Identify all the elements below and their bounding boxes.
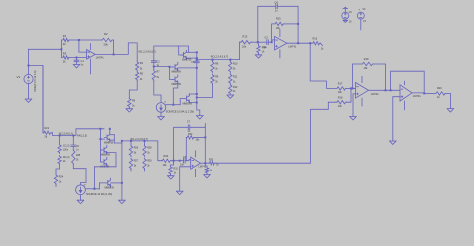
wire U2 plus to ground <box>180 167 191 191</box>
wire R30 to node <box>171 160 173 162</box>
svg-text:R(1,2,3,4,5,6,7): R(1,2,3,4,5,6,7) <box>211 55 229 58</box>
node stage4 inverting <box>352 87 354 89</box>
resistor R24 <box>54 174 64 185</box>
resistor R33 <box>209 160 220 167</box>
voltage source V1 (signal input) <box>17 49 37 99</box>
wire Q3 emitter down <box>173 84 178 105</box>
svg-text:MMBT39: MMBT39 <box>172 84 182 86</box>
node U4 output <box>385 89 387 91</box>
transistor Q3 <box>172 75 182 86</box>
U3 power stubs <box>279 29 281 58</box>
node colA tap <box>59 135 61 137</box>
ground under U5 <box>390 141 397 144</box>
wire rail2 to RS <box>158 141 162 161</box>
wire Q4 base riser <box>180 99 184 105</box>
wire Q4 collector <box>189 93 198 96</box>
svg-text:R26: R26 <box>134 147 139 150</box>
node IN junction <box>28 65 30 67</box>
node stage1 input split <box>60 40 62 58</box>
wire U4 plus to ground <box>353 94 356 117</box>
resistor R21 <box>43 66 52 139</box>
node U3 output <box>297 42 299 44</box>
wire IN to stage1 <box>29 48 62 50</box>
net label N001 <box>139 51 157 54</box>
wire U5 plus to ground <box>393 97 400 141</box>
svg-text:MMBT39: MMBT39 <box>101 154 111 156</box>
wire Q8 base riser <box>99 183 105 189</box>
voltage source V2 <box>342 7 353 23</box>
node series junction <box>179 160 181 162</box>
ground under C1 <box>73 65 80 68</box>
ground right block2 <box>197 116 204 119</box>
node U2 output <box>204 162 206 164</box>
svg-text:MMBT39: MMBT39 <box>172 71 182 73</box>
wire U3 output <box>287 42 310 44</box>
wire S1 bottom left <box>196 84 213 98</box>
resistor R29 <box>143 158 152 170</box>
resistor R12 <box>229 84 238 95</box>
wire R3 to non-inverting input <box>70 57 87 59</box>
wire R1 to inverting node <box>70 39 79 41</box>
wire stack4 stub <box>144 170 146 172</box>
node U5 output <box>423 92 425 94</box>
ground under V2 <box>343 20 348 22</box>
node colB tap <box>72 135 74 137</box>
U2 power stubs <box>195 151 197 177</box>
capacitor C7 feedback box <box>174 120 206 162</box>
capacitor C2 <box>151 60 160 69</box>
ground under V1 <box>25 99 32 102</box>
wire Q1 emitter <box>186 57 198 59</box>
wire I2 to ground <box>80 195 82 201</box>
svg-text:V1: V1 <box>17 75 21 79</box>
wire base rail Q1 <box>179 46 183 55</box>
resistor R17 <box>336 83 347 95</box>
net label R-row <box>211 55 229 58</box>
U4 power stubs <box>361 76 363 106</box>
svg-text:R28: R28 <box>147 147 152 150</box>
node stack3 tap <box>130 140 132 142</box>
svg-text:LM741: LM741 <box>371 92 379 96</box>
wire R5 to R6 <box>129 81 137 98</box>
wire source mirror <box>166 104 180 106</box>
ground under U2 plus <box>176 191 183 194</box>
U5 power stubs <box>403 81 405 109</box>
vertical x114 <box>114 135 122 143</box>
resistor R20 load <box>435 87 446 99</box>
resistor R6 <box>128 98 136 108</box>
stub above C7 box corner <box>204 124 206 128</box>
wire R13 to node <box>251 41 257 43</box>
wire I1 to ground <box>160 112 162 116</box>
capacitor C6 series <box>174 156 191 167</box>
wire U4 output <box>369 89 401 91</box>
resistor R16 tap <box>310 38 324 51</box>
node U5 fb left <box>390 89 392 91</box>
transistor Q7 <box>100 157 110 168</box>
wire U1 output <box>95 43 137 61</box>
U1 power stubs <box>90 44 92 74</box>
op-amp U1 <box>87 50 105 60</box>
wire Q7 bottom line <box>94 166 116 168</box>
node stack S2 tap <box>229 59 231 61</box>
svg-text:R20: R20 <box>437 87 442 90</box>
resistor R13 <box>240 35 251 49</box>
transistor Q5 <box>104 133 114 145</box>
resistor R4 <box>136 61 144 71</box>
resistor R5 <box>136 71 144 81</box>
resistor R22 <box>58 136 70 154</box>
wire U2 output <box>201 162 209 164</box>
capacitor C4 feedback box <box>258 1 298 43</box>
resistor R28 <box>143 141 152 157</box>
voltage source V3 <box>357 8 366 30</box>
ground under R31 <box>168 175 175 180</box>
wire stage3 input step <box>238 42 241 59</box>
svg-text:10n: 10n <box>180 164 185 167</box>
capacitor C5 <box>71 136 80 152</box>
transistor Q2 <box>172 62 182 73</box>
resistor R3 <box>62 51 70 63</box>
net label R-row-b <box>131 138 149 141</box>
wire R24 stub <box>55 185 57 187</box>
wire rail1 <box>52 129 105 136</box>
svg-text:R17: R17 <box>338 83 343 86</box>
resistor R7 <box>152 70 160 81</box>
node stage1 inverting <box>78 39 87 52</box>
node stageB summing <box>173 160 175 162</box>
svg-text:N(1,2),N(1,2): N(1,2),N(1,2) <box>59 133 73 136</box>
svg-text:R25: R25 <box>76 155 81 157</box>
svg-text:R(1,2): R(1,2) <box>63 157 70 159</box>
svg-text:MMBT39: MMBT39 <box>104 142 114 144</box>
svg-text:R3: R3 <box>63 51 67 55</box>
svg-text:R13: R13 <box>243 35 248 39</box>
op-amp U5 <box>400 85 421 101</box>
wire U5 output <box>412 92 435 95</box>
svg-text:100n: 100n <box>63 150 69 152</box>
svg-text:R18: R18 <box>338 96 343 99</box>
resistor R2 feedback <box>79 32 113 47</box>
wire stack3 stub <box>130 170 132 172</box>
wire block2 output rail <box>196 59 240 61</box>
wire Q5 emitter <box>110 139 115 141</box>
op-amp U3 <box>275 36 297 50</box>
wire Q2 Q3 chain <box>169 66 173 80</box>
ground under R34 <box>204 174 211 178</box>
svg-text:20k: 20k <box>104 42 109 46</box>
wire R20 to ground <box>446 93 450 108</box>
svg-text:R15: R15 <box>276 18 281 21</box>
resistor R11 <box>229 74 238 85</box>
ground output <box>447 109 454 112</box>
node C2-R7 tap <box>153 66 170 68</box>
transistor Q1 <box>181 50 192 61</box>
net label N-b2 <box>77 135 87 138</box>
resistor R23 <box>58 155 70 164</box>
wire R6 ground stub <box>128 108 130 109</box>
wire Q6 right <box>107 153 116 167</box>
resistor R10 <box>229 60 238 73</box>
resistor R32 feedback <box>186 133 206 161</box>
svg-text:R24: R24 <box>59 175 64 178</box>
wire stage3 to stage4 staircase <box>310 43 336 88</box>
resistor R8 <box>211 60 219 73</box>
ground under I2 <box>77 200 84 203</box>
net label N-b1 <box>59 133 73 136</box>
resistor R1 <box>62 34 70 46</box>
transistor Q4 <box>183 94 193 106</box>
transistor Q8 <box>105 178 115 189</box>
wire mirror line <box>85 188 99 190</box>
resistor R9 <box>211 74 219 84</box>
svg-text:R1: R1 <box>63 34 67 38</box>
svg-text:R10: R10 <box>233 63 238 66</box>
svg-text:R12: R12 <box>233 86 238 89</box>
wire R18 to node <box>347 87 353 102</box>
node stack4 tap <box>144 140 146 142</box>
svg-text:R29: R29 <box>147 160 152 163</box>
resistor R30 <box>161 155 171 167</box>
wire U5 feedback box <box>391 71 425 93</box>
resistor R34 shunt <box>205 163 213 173</box>
wire Q4 emitter <box>189 101 198 103</box>
resistor R25 <box>72 149 81 164</box>
node out3 <box>309 42 311 44</box>
node U1 output <box>113 53 115 55</box>
svg-text:R11: R11 <box>233 76 238 79</box>
svg-text:LM741: LM741 <box>96 56 104 60</box>
op-amp U2 <box>191 157 207 169</box>
svg-text:SINE(0 0.5 1k 0 0): SINE(0 0.5 1k 0 0) <box>33 71 37 92</box>
ground under R14 <box>255 54 262 59</box>
capacitor C8 in collector rail <box>191 61 199 64</box>
vertical right blockB <box>121 141 123 200</box>
svg-text:LM741: LM741 <box>288 44 296 48</box>
svg-text:C(1,2): C(1,2) <box>63 146 70 148</box>
wire rail2 <box>121 140 158 142</box>
wire Q2 emitter tie <box>178 67 198 69</box>
ground right blockB <box>119 200 126 203</box>
wire colA down <box>56 165 60 174</box>
current source I2 <box>76 184 113 195</box>
wire IN to bottom block <box>29 66 44 133</box>
wire R7 down to source node <box>154 81 161 103</box>
svg-text:SOURCE 10 MA (1.2 2N): SOURCE 10 MA (1.2 2N) <box>166 110 194 113</box>
node mirror <box>93 188 95 190</box>
wire C2 tap up <box>154 46 189 61</box>
ground under I1 <box>158 117 165 120</box>
wire into U3 minus <box>271 40 275 43</box>
wire Q5 base feed <box>99 128 104 162</box>
svg-text:SOURCE 10 MA (1 2N): SOURCE 10 MA (1 2N) <box>86 193 112 196</box>
wire colB down <box>73 165 86 185</box>
svg-text:R32: R32 <box>188 133 193 136</box>
svg-text:R2: R2 <box>104 32 108 36</box>
node C1 tap <box>76 57 78 59</box>
svg-text:R31: R31 <box>174 168 179 171</box>
capacitor C3 series <box>258 37 272 49</box>
resistor R19 feedback <box>353 58 386 91</box>
wire R2 to output <box>112 40 115 54</box>
svg-text:R33: R33 <box>209 160 214 162</box>
ground under U4 <box>350 117 357 120</box>
svg-text:R21: R21 <box>45 127 50 130</box>
wire Q5 collector <box>109 128 115 135</box>
wire R17 to node <box>347 87 356 89</box>
svg-text:LM741: LM741 <box>413 94 421 98</box>
svg-text:R27: R27 <box>134 160 139 163</box>
resistor R15 feedback <box>272 18 300 43</box>
svg-text:R16: R16 <box>313 38 318 41</box>
current source I1 <box>156 101 194 113</box>
svg-text:R30: R30 <box>164 155 169 158</box>
resistor R31 shunt <box>169 161 179 175</box>
capacitor C1 <box>74 58 84 67</box>
svg-text:MMBT39: MMBT39 <box>105 187 115 189</box>
resistor R18 <box>336 96 347 108</box>
ground under R12 <box>227 95 234 98</box>
svg-text:10n: 10n <box>263 46 268 49</box>
resistor R14 shunt <box>257 42 267 53</box>
resistor R26 <box>129 141 138 157</box>
svg-text:R19: R19 <box>364 58 369 61</box>
wire Q7 emitter down <box>93 167 95 189</box>
collector rail block2 <box>186 51 200 115</box>
svg-text:MMBT39: MMBT39 <box>183 103 193 105</box>
wire long output <box>215 102 336 163</box>
svg-text:+: + <box>358 8 360 12</box>
op-amp U4 <box>356 83 380 99</box>
transistor Q6 <box>101 145 111 156</box>
ground under R6 <box>126 109 133 112</box>
svg-text:N4(1,2,5): N4(1,2,5) <box>77 135 87 138</box>
resistor R27 <box>129 158 138 170</box>
node stage3 summing <box>257 41 259 43</box>
node stack S1 tap <box>212 59 214 61</box>
wire Q8 right <box>111 182 123 184</box>
